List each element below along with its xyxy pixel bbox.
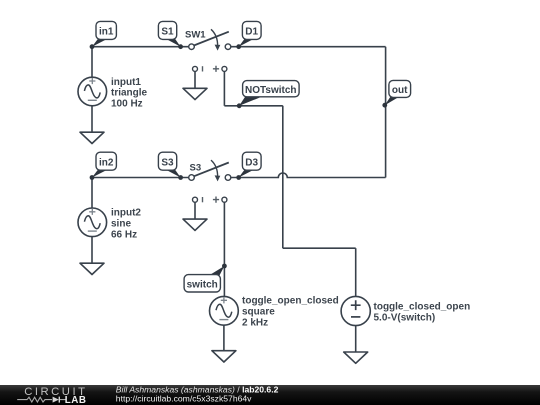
svg-text:input2: input2 xyxy=(111,208,141,219)
svg-text:out: out xyxy=(392,85,408,96)
CircuitLab logo xyxy=(17,386,87,405)
switch SW1 xyxy=(185,29,231,72)
wire: S3 minus control pin to ground xyxy=(194,202,196,219)
wire: input1 bottom to ground xyxy=(91,106,93,132)
ground (input1) xyxy=(80,132,104,143)
junction S1 xyxy=(178,44,183,49)
wire: NOTswitch long vertical xyxy=(282,106,284,248)
value label toggle_open_closed xyxy=(242,295,339,328)
svg-text:in1: in1 xyxy=(99,27,114,38)
wire row1: in1 to SW1 left terminal xyxy=(92,46,190,48)
junction in2 xyxy=(90,175,95,180)
svg-text:2 kHz: 2 kHz xyxy=(242,317,268,328)
value label input1 xyxy=(111,77,148,110)
wire: toggle_closed_open bottom to ground xyxy=(355,326,357,352)
switch S3 xyxy=(189,160,231,203)
svg-text:NOTswitch: NOTswitch xyxy=(245,85,296,96)
svg-text:square: square xyxy=(242,307,275,318)
ground (input2) xyxy=(80,263,104,274)
value label input2 xyxy=(111,208,141,241)
voltage source toggle_open_closed (square 2 kHz) xyxy=(210,296,239,325)
wire: D1 output row to right vertical xyxy=(228,46,386,48)
node label out xyxy=(385,80,411,105)
junction S3 xyxy=(178,175,183,180)
svg-text:input1: input1 xyxy=(111,77,141,88)
svg-text:toggle_open_closed: toggle_open_closed xyxy=(242,295,339,306)
wire: SW1 minus control pin to ground xyxy=(194,71,196,88)
svg-text:S1: S1 xyxy=(161,27,174,38)
ground (toggle_closed_open) xyxy=(344,352,368,363)
svg-text:S3: S3 xyxy=(161,157,174,168)
svg-text:in2: in2 xyxy=(99,157,114,168)
svg-text:5.0-V(switch): 5.0-V(switch) xyxy=(374,312,436,323)
node label D3 xyxy=(239,152,261,177)
wire: toggle_open_closed bottom to ground xyxy=(223,325,225,350)
wire: SW1 plus control pin down (NOTswitch net) xyxy=(223,71,225,106)
svg-text:S3: S3 xyxy=(190,162,202,173)
svg-text:SW1: SW1 xyxy=(185,30,206,41)
wire: right vertical (out net) xyxy=(385,47,387,178)
footer bar xyxy=(0,385,540,405)
wire: input2 top vertical xyxy=(91,178,93,209)
node label in2 xyxy=(92,152,116,177)
node label in1 xyxy=(92,21,116,46)
wire: down to toggle_closed_open xyxy=(355,248,357,296)
svg-text:sine: sine xyxy=(111,218,131,229)
ground (S3 control) xyxy=(183,219,207,230)
svg-text:D1: D1 xyxy=(245,27,258,38)
ground (SW1 control) xyxy=(183,88,207,99)
svg-text:switch: switch xyxy=(187,280,218,291)
svg-text:100 Hz: 100 Hz xyxy=(111,99,143,110)
junction D3 xyxy=(236,175,241,180)
wire: D3 output row with hop over NOTswitch vertical xyxy=(228,173,386,177)
voltage source input2 (sine 66 Hz) xyxy=(78,208,107,237)
junction switch xyxy=(222,264,227,269)
voltage source toggle_closed_open (5.0-V(switch)) xyxy=(341,296,370,325)
node label NOTswitch xyxy=(239,81,299,106)
wire: input1 top vertical xyxy=(91,47,93,78)
junction out xyxy=(382,103,387,108)
node label S1 xyxy=(158,21,180,46)
svg-text:triangle: triangle xyxy=(111,88,148,99)
ground (toggle_open_closed) xyxy=(212,351,236,362)
wire: input2 bottom to ground xyxy=(91,237,93,264)
junction D1 xyxy=(236,44,241,49)
wire row2: in2 to S3 left terminal xyxy=(92,177,190,179)
node label S3 xyxy=(158,152,180,177)
wire: S3 plus control pin down to toggle_open_closed (switch net) xyxy=(223,202,225,296)
node label D1 xyxy=(239,21,261,46)
svg-text:http://circuitlab.com/c5x3szk5: http://circuitlab.com/c5x3szk57h64v xyxy=(116,394,252,404)
node A junction in1 xyxy=(90,44,95,49)
voltage source input1 (triangle 100 Hz) xyxy=(78,77,107,106)
junction NOTswitch xyxy=(237,103,242,108)
svg-text:toggle_closed_open: toggle_closed_open xyxy=(374,301,471,312)
footer title text xyxy=(116,384,279,403)
svg-text:LAB: LAB xyxy=(65,395,87,405)
wire: NOTswitch horizontal xyxy=(224,105,282,107)
wire: NOTswitch bottom horizontal xyxy=(283,247,356,249)
svg-text:66 Hz: 66 Hz xyxy=(111,229,137,240)
value label toggle_closed_open xyxy=(374,301,471,323)
node label switch xyxy=(184,266,224,292)
svg-text:D3: D3 xyxy=(245,157,258,168)
